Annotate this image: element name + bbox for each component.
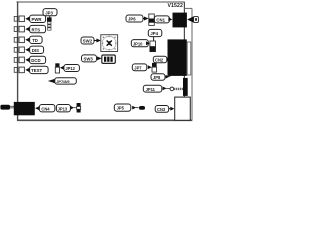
LED DCD [14, 56, 45, 63]
LED TEST [14, 66, 48, 73]
connector CN1 block [173, 13, 187, 28]
svg-text:TEST: TEST [31, 68, 42, 73]
screw lug [170, 87, 174, 91]
jumper label JP12 [60, 65, 80, 72]
svg-text:V1522: V1522 [168, 3, 184, 9]
label JP7/8/9 [48, 78, 77, 84]
svg-text:CN2: CN2 [155, 58, 164, 63]
svg-text:JP7: JP7 [134, 65, 142, 70]
LED TD [14, 36, 42, 43]
connector CN3 white body [175, 97, 191, 120]
jumper JP4/JP10 block [150, 41, 156, 52]
connector CN2 block [168, 39, 187, 76]
svg-text:PWR: PWR [32, 17, 43, 22]
LED PWR [14, 15, 45, 22]
LED DIS [14, 46, 43, 53]
jumper label JP10 [131, 40, 150, 47]
switch label SW2 [81, 37, 101, 44]
svg-text:RTS: RTS [32, 27, 41, 32]
jumper label JP6 [126, 15, 149, 22]
svg-text:TD: TD [32, 38, 38, 43]
LED RTS [14, 25, 45, 32]
bracket outer edge [191, 8, 193, 120]
connector label CN4 [35, 105, 55, 112]
plug pins [10, 105, 14, 107]
jumper JP12 block [55, 63, 59, 73]
svg-text:CN4: CN4 [41, 106, 50, 111]
jumper label JP3 [43, 9, 57, 18]
jumper JP13 block [77, 103, 81, 113]
lug JP5 [139, 106, 145, 110]
svg-text:JP5: JP5 [117, 106, 125, 111]
jumper label JP8 [151, 74, 172, 80]
svg-text:JP8: JP8 [153, 75, 161, 80]
jumper JP7 block [152, 63, 157, 72]
connector bar (small black) [183, 78, 188, 96]
rotary switch SW2 [101, 35, 118, 52]
svg-text:CN3: CN3 [157, 107, 166, 112]
svg-text:SW2: SW2 [83, 39, 93, 44]
svg-text:JP3: JP3 [45, 10, 53, 15]
connector label CN2 [153, 56, 171, 63]
board outline top edge [17, 1, 185, 3]
bracket top edge [184, 7, 192, 9]
jumper label JP11 [143, 85, 170, 92]
connector CN2 tab [187, 42, 191, 75]
connector label CN3 [155, 106, 174, 113]
svg-text:JP4: JP4 [150, 31, 158, 36]
svg-text:CN1: CN1 [156, 18, 165, 23]
bracket inner edge [183, 2, 185, 120]
switch label SW3 [82, 55, 102, 62]
phone plug [0, 105, 10, 110]
svg-text:JP13: JP13 [58, 106, 68, 111]
board outline bottom edge [17, 119, 192, 121]
connector label CN1 [154, 16, 172, 23]
svg-text:JP12: JP12 [65, 66, 75, 71]
svg-text:JP7/8/9: JP7/8/9 [56, 79, 70, 84]
svg-text:JP10: JP10 [133, 41, 143, 46]
jumper label JP13 [56, 105, 76, 112]
tiny label box at right edge [194, 16, 199, 22]
board outline left edge [17, 2, 19, 121]
jumper JP3 block [47, 17, 52, 30]
jumper label JP7 [132, 64, 151, 71]
svg-text:JP11: JP11 [146, 87, 156, 92]
connector CN4 block [14, 102, 35, 115]
svg-text:JP6: JP6 [128, 17, 136, 22]
jumper label JP5 [114, 104, 138, 111]
DIP switch SW3 [102, 55, 116, 63]
svg-text:DCD: DCD [31, 58, 40, 63]
jumper label JP4 [148, 29, 162, 41]
jumper JP6 block [149, 14, 155, 25]
arrow right of CN1 [187, 16, 193, 22]
svg-text:DIS: DIS [32, 48, 39, 53]
svg-text:SW3: SW3 [84, 57, 94, 62]
threaded shaft [174, 88, 184, 90]
